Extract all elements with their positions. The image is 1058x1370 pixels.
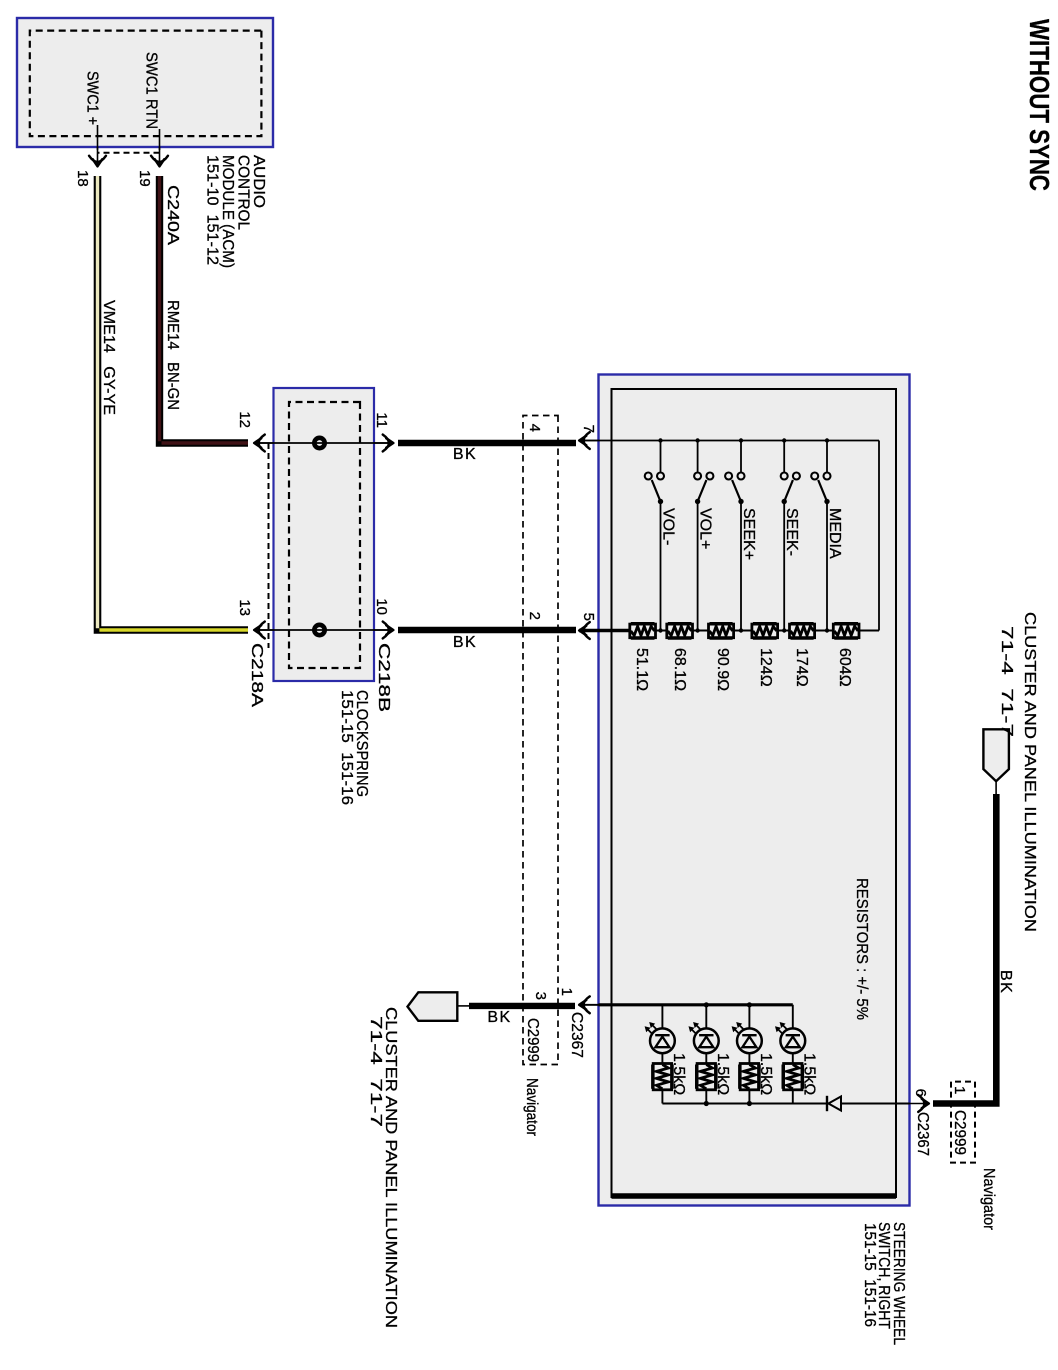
connector pin 1 C2367	[579, 996, 598, 1013]
svg-text:71-4 71-7: 71-4 71-7	[367, 1016, 384, 1127]
svg-text:CLUSTER AND PANEL ILLUMINATION: CLUSTER AND PANEL ILLUMINATION	[1021, 612, 1038, 932]
resistor 174ohm	[790, 624, 815, 638]
svg-text:604Ω: 604Ω	[836, 648, 853, 687]
inner box	[612, 389, 897, 1197]
svg-text:13: 13	[236, 599, 253, 616]
LED D4	[775, 1022, 805, 1053]
connector pin 6 C2367	[910, 1095, 929, 1112]
module clockspring box	[274, 388, 375, 681]
wire ladder seg	[815, 630, 834, 632]
svg-text:BK: BK	[487, 1009, 511, 1026]
LED D3	[732, 1022, 762, 1053]
svg-text:12: 12	[236, 411, 253, 428]
label cluster illumination top	[998, 612, 1038, 932]
svg-text:C2999: C2999	[951, 1110, 968, 1155]
module ACM box	[17, 18, 273, 147]
label steering wheel switch	[861, 1222, 907, 1345]
resistor 51.1ohm	[630, 624, 656, 638]
svg-text:151-10 151-12: 151-10 151-12	[204, 155, 221, 265]
svg-text:18: 18	[74, 170, 91, 187]
svg-text:90.9Ω: 90.9Ω	[714, 648, 731, 691]
connector pin 11 C218B	[374, 435, 393, 452]
wire BK net A	[398, 440, 576, 446]
svg-text:CONTROL: CONTROL	[235, 155, 252, 230]
wire ladder seg	[656, 630, 667, 632]
wire LED common rail	[662, 1103, 827, 1105]
svg-text:174Ω: 174Ω	[793, 648, 810, 687]
wire ladder seg	[693, 630, 709, 632]
connector C2999 dashed box	[523, 416, 558, 1065]
connector pin 10 C218B	[374, 622, 393, 639]
svg-text:4: 4	[526, 424, 543, 432]
clockspring inner dashed box	[289, 402, 360, 668]
label AUDIO CONTROL MODULE (ACM)	[204, 155, 268, 268]
junction dots LED rail	[704, 1101, 709, 1106]
resistor 1.5kohm R2	[697, 1064, 716, 1090]
svg-text:5: 5	[580, 613, 597, 621]
connector pin 5 C2367	[579, 622, 598, 639]
switch VOL-	[645, 438, 664, 632]
switch MEDIA	[811, 438, 830, 632]
resistor 124ohm	[752, 624, 778, 638]
junction dots feed	[704, 1002, 709, 1007]
label cluster illumination bottom	[367, 1007, 399, 1328]
connector C240A dashed boundary	[98, 152, 160, 154]
svg-text:SWC1 RTN: SWC1 RTN	[143, 52, 160, 129]
lead from arrow	[995, 781, 997, 794]
wire B through clockspring	[254, 629, 394, 631]
svg-text:C2367: C2367	[914, 1112, 931, 1156]
wire LED branch 2	[705, 1005, 707, 1104]
svg-text:124Ω: 124Ω	[757, 648, 774, 687]
svg-text:SWC1 +: SWC1 +	[84, 71, 101, 125]
svg-text:VOL+: VOL+	[697, 508, 714, 549]
svg-text:CLOCKSPRING: CLOCKSPRING	[353, 690, 370, 797]
wire A through clockspring	[254, 442, 394, 444]
svg-text:BK: BK	[997, 970, 1014, 994]
wire ladder seg	[778, 630, 790, 632]
diode CR1	[827, 1096, 841, 1111]
svg-text:RESISTORS : +/- 5%: RESISTORS : +/- 5%	[853, 878, 870, 1020]
svg-text:1.5kΩ: 1.5kΩ	[670, 1053, 687, 1095]
svg-text:Navigator: Navigator	[523, 1078, 540, 1137]
off-page arrow cluster illumination (bottom)	[408, 992, 458, 1021]
inner box thick right edge	[612, 1193, 897, 1199]
svg-text:C2999: C2999	[524, 1018, 541, 1062]
resistor 1.5kohm R3	[740, 1064, 759, 1090]
svg-text:VOL-: VOL-	[660, 508, 677, 545]
svg-text:1: 1	[951, 1086, 968, 1094]
clockspring coil symbol A	[314, 438, 324, 448]
svg-text:SEEK+: SEEK+	[740, 508, 757, 560]
resistor 90.9ohm	[709, 624, 734, 638]
wire LED branch 1	[661, 1005, 663, 1104]
switch SEEK-	[781, 438, 800, 632]
wire ladder top	[859, 630, 879, 632]
svg-text:C218A: C218A	[248, 643, 265, 707]
connector pin 7 C2367	[579, 432, 598, 449]
ACM inner dashed box	[30, 31, 262, 137]
svg-text:BK: BK	[453, 634, 477, 651]
LED D2	[689, 1022, 719, 1053]
svg-text:151-15 151-16: 151-15 151-16	[338, 690, 355, 805]
svg-text:151-15 151-16: 151-15 151-16	[861, 1223, 878, 1327]
wire ladder seg	[734, 630, 752, 632]
wire LED branch 3	[748, 1005, 750, 1104]
connector C218A dashed boundary	[268, 443, 270, 648]
svg-text:C2367: C2367	[568, 1012, 585, 1058]
svg-text:1.5kΩ: 1.5kΩ	[757, 1053, 774, 1095]
svg-text:AUDIO: AUDIO	[250, 155, 267, 208]
wire BK pin1 to cluster arrow	[469, 1003, 575, 1009]
lead pin 19	[159, 129, 161, 150]
resistor 604ohm	[833, 624, 859, 638]
wire LED feed net pin1	[579, 1004, 612, 1006]
resistor 68.1ohm	[667, 624, 693, 638]
lead pin 5	[579, 629, 630, 633]
svg-text:1.5kΩ: 1.5kΩ	[800, 1053, 817, 1095]
wire VME14 GY-YE pin18 to clockspring pin13	[98, 176, 249, 630]
svg-text:71-4 71-7: 71-4 71-7	[998, 626, 1015, 737]
svg-text:6: 6	[912, 1089, 929, 1097]
switch SEEK+	[725, 438, 744, 632]
wire BK cluster to pin6	[933, 794, 996, 1104]
svg-text:CLUSTER AND PANEL ILLUMINATION: CLUSTER AND PANEL ILLUMINATION	[382, 1007, 399, 1328]
svg-text:RME14 BN-GN: RME14 BN-GN	[164, 300, 181, 410]
svg-text:MODULE (ACM): MODULE (ACM)	[219, 155, 236, 268]
svg-text:10: 10	[373, 598, 390, 615]
lead to arrow	[457, 1005, 469, 1007]
svg-text:1.5kΩ: 1.5kΩ	[714, 1053, 731, 1095]
switch VOL+	[694, 438, 713, 632]
off-page arrow cluster illumination (top)	[983, 729, 1009, 781]
svg-text:3: 3	[532, 992, 549, 1000]
connector pin 12 C218A	[254, 435, 273, 452]
svg-text:19: 19	[136, 170, 153, 187]
wire BK net B	[398, 627, 576, 633]
svg-text:51.1Ω: 51.1Ω	[633, 648, 650, 691]
connector pin 13 C218A	[254, 622, 273, 639]
wire top link	[878, 441, 880, 631]
svg-text:1: 1	[558, 988, 575, 996]
svg-text:MEDIA: MEDIA	[826, 508, 843, 559]
svg-text:C240A: C240A	[164, 185, 181, 245]
wire LED branch 4	[792, 1005, 794, 1104]
svg-text:68.1Ω: 68.1Ω	[671, 648, 688, 691]
module steering wheel switch box	[599, 375, 910, 1206]
svg-text:VME14 GY-YE: VME14 GY-YE	[100, 300, 117, 415]
svg-text:7: 7	[580, 425, 597, 433]
svg-text:BK: BK	[453, 446, 477, 463]
connector C2999 dashed box (pin 1)	[951, 1082, 975, 1163]
wire RME14 BN-GN pin19 to clockspring pin12	[160, 176, 249, 443]
svg-text:Navigator: Navigator	[980, 1168, 997, 1231]
resistor 1.5kohm R1	[653, 1064, 672, 1090]
lead pin 18	[97, 125, 99, 150]
svg-text:C218B: C218B	[375, 643, 392, 712]
svg-text:WITHOUT SYNC: WITHOUT SYNC	[1024, 19, 1055, 191]
svg-text:SEEK-: SEEK-	[783, 508, 800, 556]
svg-text:11: 11	[373, 412, 390, 428]
LED D1	[645, 1022, 675, 1053]
svg-text:STEERING WHEEL: STEERING WHEEL	[890, 1222, 907, 1345]
connector pin 18 C240A	[89, 147, 106, 166]
connector pin 19 C240A	[151, 147, 168, 166]
svg-text:2: 2	[526, 612, 543, 620]
clockspring coil symbol B	[314, 625, 324, 635]
wire left rail	[612, 440, 880, 442]
resistor 1.5kohm R4	[783, 1064, 802, 1090]
label CLOCKSPRING	[338, 690, 370, 805]
lead pin 7	[579, 440, 612, 442]
